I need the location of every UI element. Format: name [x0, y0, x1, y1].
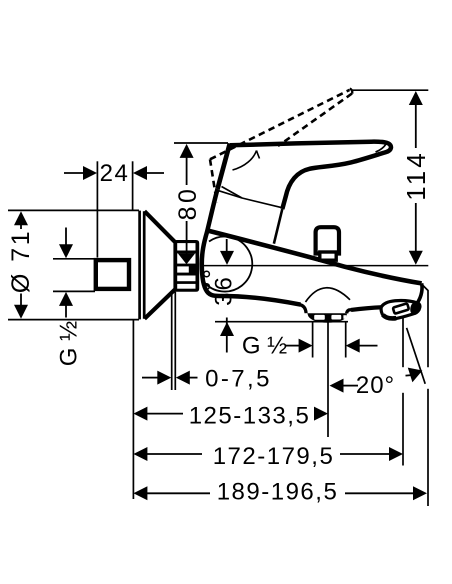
spout dome arc: [306, 288, 351, 302]
lever sculpt lines: [233, 151, 260, 171]
svg-text:G ½: G ½: [56, 321, 83, 366]
dimension 125-133,5: [133, 407, 328, 421]
svg-text:20°: 20°: [356, 372, 395, 399]
dimension 189-196,5: [133, 486, 427, 500]
extension line wall plane lower: [132, 320, 134, 499]
dimension 80: [174, 143, 228, 264]
svg-text:G ½: G ½: [242, 333, 287, 360]
spout end face: [418, 283, 422, 302]
dimension 24: [64, 161, 164, 257]
lever raised position (dashed): [210, 90, 352, 203]
body back edge: [274, 209, 282, 244]
spout underside right segment: [351, 307, 383, 310]
wall nipple: [96, 260, 129, 289]
body screws: [204, 271, 210, 277]
body separation lines: [219, 187, 282, 208]
extension line top of escutcheon: [8, 209, 139, 211]
dimension 36: [220, 239, 234, 353]
valve body left edge and spout underside: [202, 189, 301, 305]
shower outlet with aerator: [299, 305, 351, 323]
spout mouth piece: [381, 301, 420, 319]
axis centerline: [203, 265, 428, 267]
pivot circle: [204, 237, 253, 292]
svg-text:Ø 71: Ø 71: [7, 229, 35, 293]
union nut: [173, 240, 199, 292]
svg-text:0-7,5: 0-7,5: [205, 366, 272, 393]
dimension 172-179,5: [133, 447, 403, 461]
diverter knob: [316, 227, 339, 260]
extension line spout tip lower: [422, 285, 428, 368]
svg-text:24: 24: [100, 160, 130, 187]
dimension 0-7,5 adjustable: [142, 292, 198, 390]
svg-text:36: 36: [211, 275, 238, 306]
svg-text:189-196,5: 189-196,5: [217, 479, 339, 506]
lever handle: [218, 142, 391, 209]
escutcheon: [140, 211, 175, 320]
dimension 20 degrees: [330, 328, 426, 393]
svg-text:172-179,5: 172-179,5: [213, 443, 335, 470]
dimension 114: [351, 90, 428, 265]
svg-text:80: 80: [174, 186, 202, 221]
svg-text:114: 114: [401, 150, 431, 200]
dimension G1/2 shower outlet: [285, 322, 378, 358]
extension line outlet bottom: [215, 321, 348, 323]
svg-text:125-133,5: 125-133,5: [189, 403, 311, 430]
extension line spout end lower: [402, 318, 404, 368]
dimension D71: [14, 211, 28, 319]
extension line outlet axis lower: [327, 322, 329, 437]
dimension G1/2 wall thread: [53, 228, 95, 318]
spout top edge: [208, 231, 422, 284]
extension line bottom of escutcheon: [8, 319, 139, 321]
